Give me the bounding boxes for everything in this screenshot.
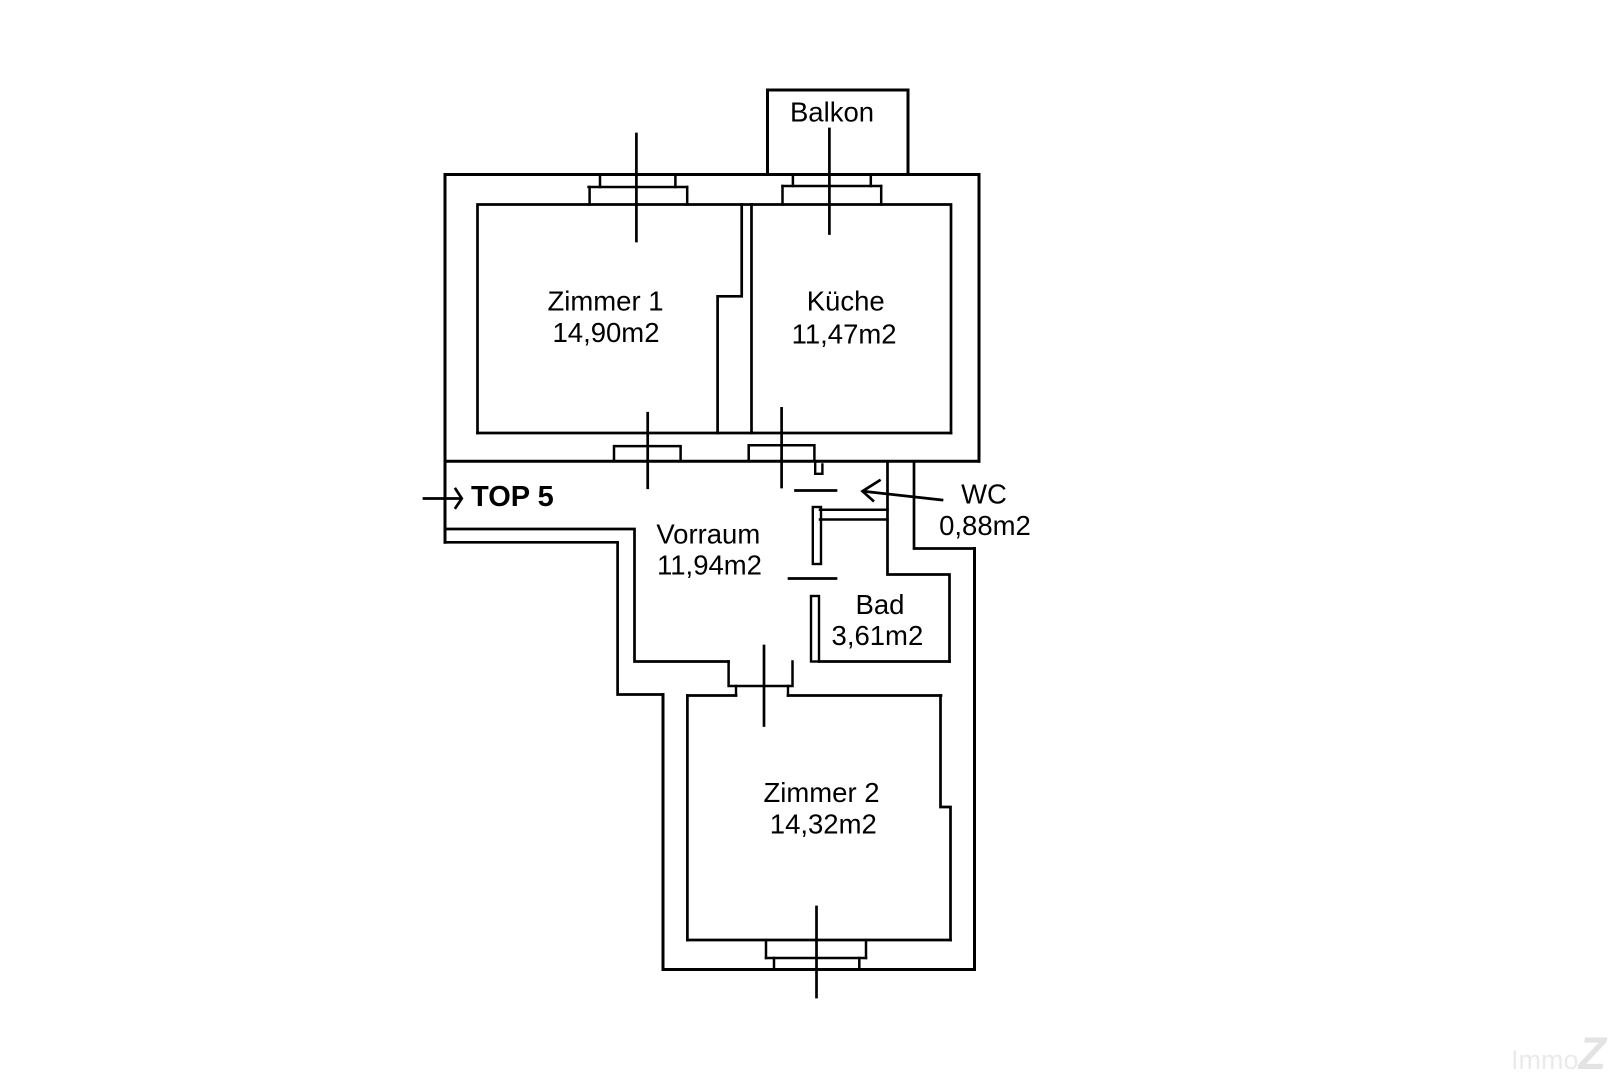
svg-text:11,47m2: 11,47m2 [792, 319, 897, 350]
partition wall Zimmer1/Küche left side with jog [718, 205, 742, 434]
Zimmer 2 outer wall (left, bottom, right up to WC step) [663, 549, 975, 970]
door Zimmer 2 axis line [763, 646, 766, 726]
window Küche axis line [828, 129, 831, 234]
outer wall top block (left, top, right) [445, 175, 979, 543]
door stop hook right of Küche door [815, 462, 822, 474]
entry arrow line [424, 497, 461, 500]
window Zimmer 1 top: sill line [589, 186, 688, 189]
partition wall Zimmer1/Küche right side [750, 205, 753, 434]
door Zimmer 2 jamb jogs [736, 686, 788, 696]
door jamb bar lower (Vorraum/Bad) [811, 596, 819, 662]
balcony box Balkon [768, 90, 909, 175]
Zimmer 2 inner left wall [686, 696, 689, 941]
svg-text:Balkon: Balkon [790, 97, 874, 128]
Zimmer 2 top wall right part [788, 694, 941, 697]
window Küche top: narrow recess [793, 175, 871, 187]
svg-text:14,32m2: 14,32m2 [770, 808, 877, 839]
WC arrow head [863, 481, 880, 501]
WC/Vorraum stub wall double line [820, 510, 888, 520]
window Küche top: wide recess [783, 186, 882, 205]
window Zimmer 2 axis line [815, 907, 818, 997]
svg-text:14,90m2: 14,90m2 [552, 317, 659, 348]
svg-text:11,94m2: 11,94m2 [657, 549, 762, 580]
outer wall bottom line of top block [445, 460, 979, 463]
svg-text:3,61m2: 3,61m2 [832, 620, 924, 651]
WC arrow line [864, 491, 943, 500]
window Zimmer 2 bottom: wide recess [766, 940, 866, 958]
door Küche axis line [780, 408, 783, 487]
svg-text:0,88m2: 0,88m2 [939, 510, 1031, 541]
svg-text:Vorraum: Vorraum [656, 519, 760, 550]
svg-text:Zimmer 1: Zimmer 1 [547, 285, 663, 316]
door Küche bottom threshold [749, 445, 815, 461]
door jamb bar upper (Vorraum/Bad) [813, 507, 821, 564]
window Zimmer 2 bottom: narrow recess [774, 958, 859, 970]
door Zimmer 1 bottom threshold [614, 446, 681, 461]
entry step wall inner contour / Vorraum bottom line [445, 529, 729, 662]
Bad bottom wall [819, 660, 950, 663]
window Zimmer 1 axis line [635, 134, 638, 241]
entry arrow head [456, 489, 462, 508]
svg-text:Zimmer 2: Zimmer 2 [763, 777, 879, 808]
svg-text:ImmoZ: ImmoZ [1511, 1028, 1608, 1079]
door Zimmer 2 top threshold [729, 662, 793, 687]
WC door leaf [796, 489, 837, 492]
Bad door leaf [789, 577, 836, 580]
window Küche top: sill line [783, 185, 882, 188]
window Zimmer 2 bottom: sill line [766, 957, 866, 960]
Zimmer 2 top wall left part [687, 694, 736, 697]
svg-text:WC: WC [961, 479, 1007, 510]
svg-text:Bad: Bad [856, 589, 905, 620]
inner wall top block (left, top, right) [478, 205, 952, 434]
inner wall bottom line of top block [478, 432, 952, 435]
Zimmer 2 inner right wall with jog [941, 696, 951, 941]
WC left wall L-shape [888, 462, 950, 662]
Zimmer 2 inner bottom wall [687, 939, 950, 942]
svg-text:Küche: Küche [807, 286, 885, 317]
svg-text:TOP 5: TOP 5 [471, 481, 554, 513]
window Zimmer 1 top: narrow recess [600, 175, 675, 188]
door Zimmer 1 axis line [646, 413, 649, 488]
WC right wall step [914, 462, 975, 549]
entry step wall outer contour [445, 542, 663, 694]
window Zimmer 1 top: wide recess [590, 187, 688, 205]
